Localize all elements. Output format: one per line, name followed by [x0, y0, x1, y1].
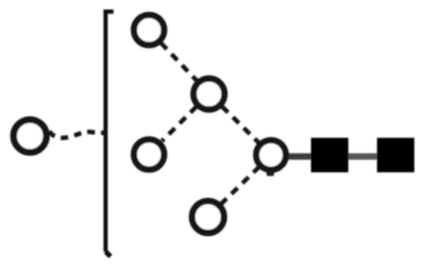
hexose circle M5 (branch root, links to squares)	[256, 140, 286, 170]
bracket [	[106, 12, 114, 252]
hexose circle M6 (left, outside bracket)	[14, 120, 47, 153]
dashed linkage bottom circle to branch circle	[221, 168, 259, 205]
dashed linkage top circle to middle circle	[161, 43, 197, 81]
junction mark below branch circle	[267, 171, 275, 177]
hexose circle M4 (bottom)	[192, 201, 224, 233]
solid linkage square S1 to square S2	[346, 153, 380, 160]
hexose circle M3 (lower left)	[134, 139, 164, 169]
GlcNAc square S2	[377, 138, 414, 173]
GlcNAc square S1	[311, 138, 348, 173]
dashed linkage middle circle to lower-left circle	[162, 107, 197, 142]
bracket foot	[106, 252, 111, 257]
solid linkage branch circle to GlcNAc square S1	[287, 153, 314, 160]
dashed linkage middle circle to branch circle	[222, 107, 259, 144]
hexose circle M2 (middle branch point)	[194, 79, 225, 110]
wavy dashed linkage from left hexose to bracket	[49, 132, 106, 138]
hexose circle M1 (top of bracket tree)	[134, 15, 164, 45]
